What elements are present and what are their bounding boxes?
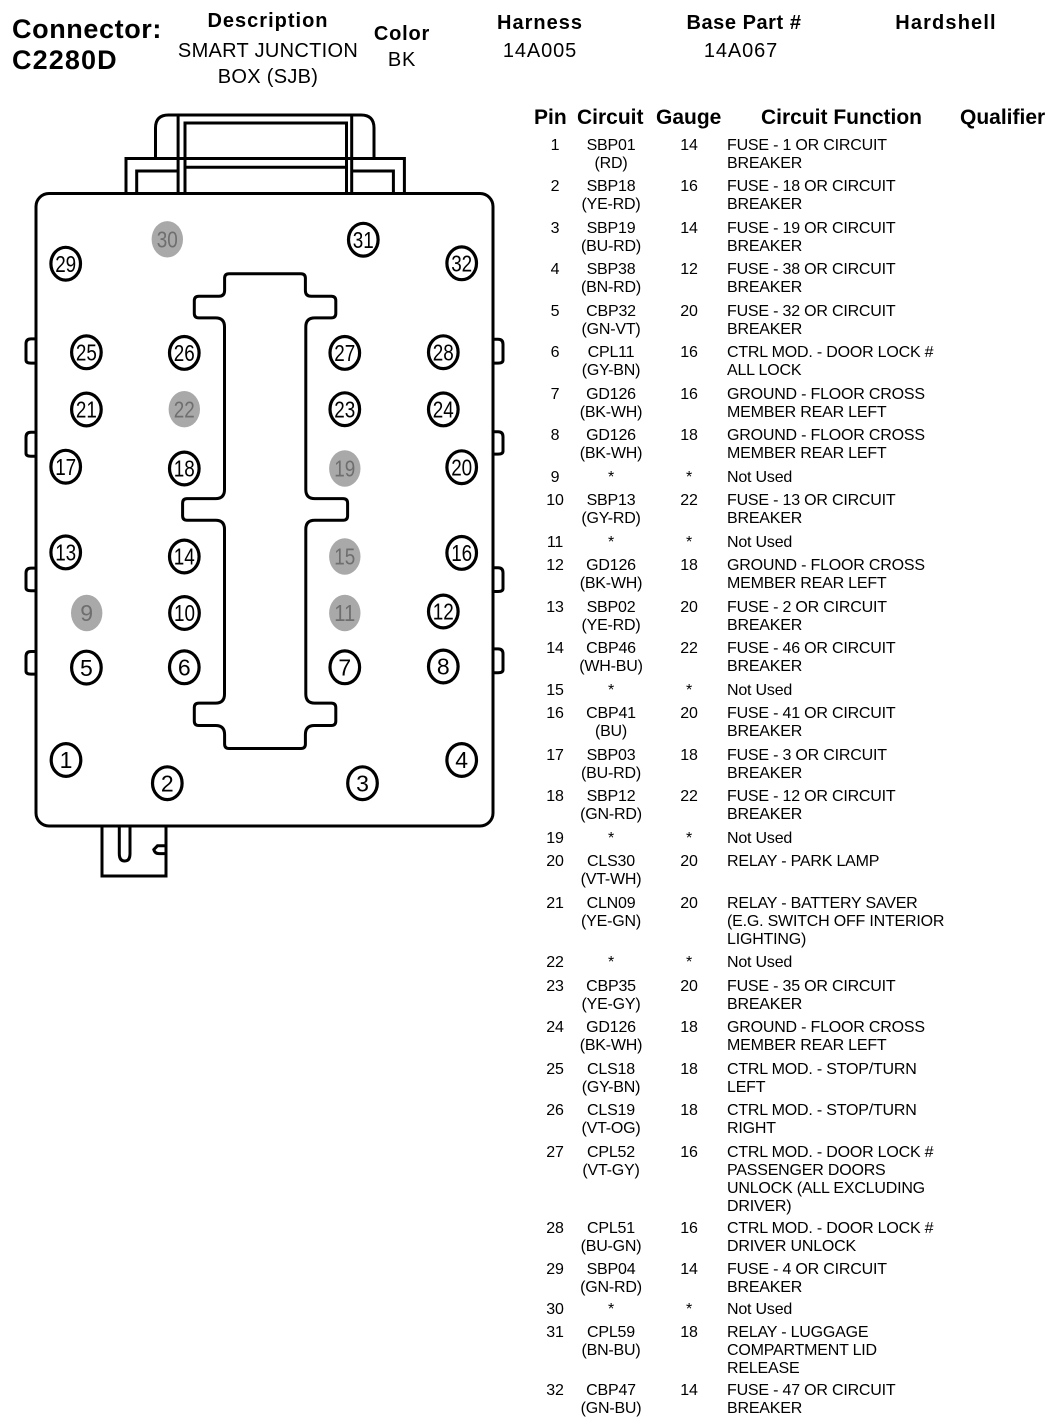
table row pin 25 [530, 1061, 1054, 1097]
bottom tab keyway slot [119, 826, 130, 861]
pin 25 [72, 336, 102, 369]
header: Connector label [12, 14, 162, 45]
pin 18 [170, 452, 200, 485]
table row pin 24 [530, 1019, 1054, 1055]
top latch wide base rectangle [126, 159, 404, 194]
pin 10 [170, 597, 200, 630]
table row pin 23 [530, 978, 1054, 1014]
table row pin 5 [530, 303, 1054, 339]
table row pin 12 [530, 557, 1054, 593]
table row pin 19 [530, 830, 1054, 848]
pin 9 [71, 595, 102, 631]
svg-text:12: 12 [433, 599, 454, 625]
header: Hardshell [895, 12, 997, 35]
svg-text:27: 27 [334, 340, 355, 366]
top latch base right corner block [352, 171, 394, 194]
svg-text:8: 8 [437, 654, 450, 680]
pin 24 [429, 393, 459, 426]
pin 27 [330, 337, 360, 370]
svg-text:10: 10 [174, 600, 195, 626]
svg-text:30: 30 [157, 227, 178, 253]
right edge bump 1 [493, 339, 503, 363]
pin 17 [51, 450, 81, 483]
svg-text:22: 22 [174, 396, 195, 422]
table row pin 6 [530, 344, 1054, 380]
table row pin 32 [530, 1382, 1054, 1418]
pin 4 [447, 744, 477, 777]
table row pin 20 [530, 853, 1054, 889]
top latch cross bar line [185, 166, 347, 169]
svg-text:1: 1 [60, 747, 73, 773]
table row pin 30 [530, 1301, 1054, 1319]
svg-text:23: 23 [334, 396, 355, 422]
svg-text:3: 3 [356, 770, 369, 796]
pin 11 [329, 595, 360, 631]
bottom mounting tab [102, 826, 166, 876]
top latch inner rectangle [185, 123, 347, 194]
pin 16 [447, 537, 477, 570]
pin 6 [170, 651, 200, 684]
table row pin 9 [530, 469, 1054, 487]
table row pin 22 [530, 954, 1054, 972]
svg-text:28: 28 [433, 339, 454, 365]
svg-text:29: 29 [55, 251, 76, 277]
header: Description [207, 10, 328, 33]
table row pin 1 [530, 137, 1054, 173]
svg-text:31: 31 [353, 227, 374, 253]
pin 30 [152, 221, 183, 257]
svg-text:24: 24 [433, 397, 454, 423]
table row pin 13 [530, 599, 1054, 635]
pin 13 [51, 536, 81, 569]
top latch base left corner block [137, 171, 178, 194]
svg-text:11: 11 [334, 600, 355, 626]
pin 28 [429, 336, 459, 369]
right edge bump 3 [493, 568, 503, 592]
top latch inner slot left line [177, 115, 180, 194]
pin 19 [329, 450, 360, 486]
right edge bump 2 [493, 432, 503, 454]
svg-text:7: 7 [338, 655, 351, 681]
table row pin 31 [530, 1324, 1054, 1378]
svg-text:20: 20 [451, 454, 472, 480]
pin 15 [329, 538, 360, 574]
svg-text:14: 14 [174, 544, 195, 570]
table row pin 28 [530, 1220, 1054, 1256]
table row pin 17 [530, 747, 1054, 783]
table row pin 26 [530, 1102, 1054, 1138]
svg-text:2: 2 [161, 770, 174, 796]
left edge bump 4 [26, 652, 36, 675]
table row pin 29 [530, 1261, 1054, 1297]
table row pin 4 [530, 261, 1054, 297]
svg-text:25: 25 [76, 340, 97, 366]
table row pin 8 [530, 427, 1054, 463]
pin 12 [429, 595, 459, 628]
pin 20 [447, 451, 477, 484]
svg-text:6: 6 [178, 655, 191, 681]
pin 3 [348, 767, 378, 800]
header: Harness [497, 12, 583, 35]
top latch outer rounded tab [156, 115, 375, 159]
table row pin 3 [530, 220, 1054, 256]
svg-text:15: 15 [334, 544, 355, 570]
table row pin 15 [530, 682, 1054, 700]
table header row [534, 106, 567, 130]
svg-text:18: 18 [174, 456, 195, 482]
bottom tab side notch [154, 846, 166, 854]
pin 29 [51, 247, 81, 280]
table row pin 7 [530, 386, 1054, 422]
pin 21 [72, 393, 102, 426]
svg-text:19: 19 [334, 456, 355, 482]
pin 22 [169, 391, 200, 427]
table row pin 27 [530, 1144, 1054, 1216]
table row pin 14 [530, 640, 1054, 676]
svg-text:32: 32 [451, 251, 472, 277]
table row pin 16 [530, 705, 1054, 741]
table row pin 11 [530, 534, 1054, 552]
top latch inner slot right line [350, 115, 353, 194]
left edge bump 1 [26, 339, 36, 363]
left edge bump 2 [26, 432, 36, 456]
pin 7 [330, 651, 360, 684]
pin 1 [51, 744, 81, 777]
header: Base Part # [686, 12, 801, 35]
svg-text:4: 4 [455, 747, 468, 773]
pin 32 [447, 247, 477, 280]
pin 5 [72, 651, 102, 684]
left edge bump 3 [26, 568, 36, 591]
table row pin 21 [530, 895, 1054, 949]
right edge bump 4 [493, 649, 503, 673]
pin 23 [330, 393, 360, 426]
pin 14 [170, 540, 200, 573]
svg-text:9: 9 [80, 600, 93, 626]
svg-text:16: 16 [451, 540, 472, 566]
svg-text:5: 5 [80, 655, 93, 681]
pin 8 [429, 650, 459, 683]
table row pin 2 [530, 178, 1054, 214]
svg-text:26: 26 [174, 340, 195, 366]
pin 2 [153, 767, 183, 800]
pin 26 [170, 337, 200, 370]
svg-text:13: 13 [55, 540, 76, 566]
table row pin 10 [530, 492, 1054, 528]
connector body outline [36, 194, 493, 827]
svg-text:21: 21 [76, 397, 97, 423]
header: Color [374, 23, 430, 46]
svg-text:17: 17 [55, 454, 76, 480]
central keyway I-beam [183, 274, 348, 749]
pin 31 [349, 223, 379, 256]
table row pin 18 [530, 788, 1054, 824]
